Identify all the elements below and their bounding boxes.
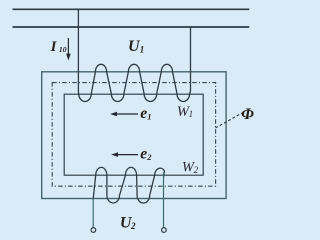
svg-text:I: I: [50, 39, 58, 55]
svg-text:2: 2: [194, 165, 199, 175]
svg-text:2: 2: [130, 221, 136, 231]
primary winding W1 coil with left wire and right wire: [78, 9, 190, 101]
svg-text:2: 2: [146, 152, 152, 162]
svg-text:1: 1: [147, 111, 151, 121]
core inner edge (window): [64, 94, 203, 175]
svg-text:1: 1: [189, 109, 194, 119]
emf e2 arrow: [111, 152, 138, 157]
svg-text:10: 10: [59, 45, 67, 54]
svg-text:Φ: Φ: [241, 106, 254, 123]
secondary winding W2 coil: [93, 167, 164, 203]
current I10 arrow: [66, 38, 71, 61]
terminal circle right: [162, 228, 167, 233]
flux path dash-dot line: [52, 83, 215, 187]
wire: left secondary terminal lead: [92, 199, 94, 228]
bus wire L2 (second supply line): [13, 26, 250, 28]
svg-text:1: 1: [140, 45, 145, 55]
core outer edge: [42, 72, 226, 199]
terminal circle left: [91, 228, 96, 233]
emf e1 arrow: [110, 112, 138, 117]
wire: right secondary terminal lead: [163, 173, 165, 228]
flux leader dashed line: [215, 113, 242, 128]
bus wire L1 (top supply line): [13, 8, 250, 10]
